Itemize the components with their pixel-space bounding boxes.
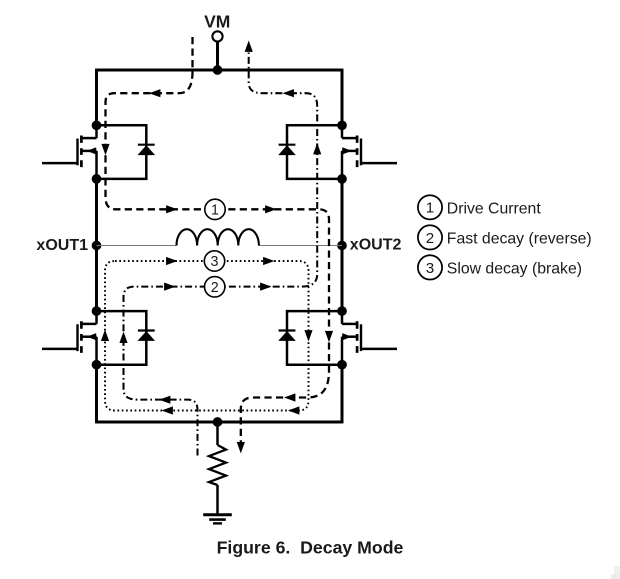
wire left rail upper (95, 69, 98, 126)
svg-text:Fast decay (reverse): Fast decay (reverse) (447, 231, 592, 248)
wire left rail middle (95, 179, 98, 311)
arrow path2 bottom (159, 396, 170, 404)
path label circle 2 (205, 277, 225, 297)
node xOUT2 (337, 241, 347, 251)
junction Q2 source (337, 174, 347, 184)
inductor motor winding (177, 229, 259, 245)
arrow path1 bottom (284, 393, 295, 401)
current path 3 slow decay (dotted) (105, 261, 309, 411)
wire winding to xOUT2 (259, 245, 342, 247)
legend item 2 (418, 225, 592, 249)
junction sense node (213, 417, 223, 427)
junction Q3 source (92, 360, 102, 370)
junction Q2 drain (337, 120, 347, 130)
svg-text:1: 1 (211, 202, 219, 218)
node xOUT1 (92, 241, 102, 251)
wire top rail (97, 69, 343, 72)
body diode of Q3 (low-side left) (97, 311, 156, 365)
svg-text:xOUT1: xOUT1 (36, 237, 88, 254)
arrow path3 top right (263, 257, 274, 265)
net label VM (204, 12, 230, 32)
arrow path2 up through Q3 diode (119, 332, 127, 343)
current path 2 fast decay (dash-dot) (124, 53, 318, 456)
arrow path1 to sense resistor (237, 442, 245, 453)
arrow path3 down through Q4 diode (304, 330, 312, 341)
arrow path1 down through Q4 (325, 331, 333, 342)
arrow path2 mid left (164, 283, 175, 291)
path label circle 3 (204, 251, 224, 271)
arrow path1 down through Q1 (101, 144, 109, 155)
transistor Q2 (high-side right) (342, 125, 397, 179)
transistor Q1 (high-side left) (42, 125, 97, 179)
wire left rail lower (95, 365, 98, 424)
legend item 3 (418, 255, 582, 279)
arrow path1 top-left (149, 89, 160, 97)
svg-text:xOUT2: xOUT2 (350, 237, 402, 254)
wire xOUT1 to winding (97, 245, 177, 247)
wire right rail middle (341, 179, 344, 311)
junction VM node (213, 65, 223, 75)
wire to sense resistor (216, 422, 219, 445)
junction Q4 source (337, 360, 347, 370)
arrow path2 mid right (260, 283, 271, 291)
body diode of Q4 (low-side right) (278, 311, 342, 365)
junction Q4 drain (337, 306, 347, 316)
transistor Q4 (low-side right) (342, 311, 397, 365)
arrow path2 to VM (245, 41, 253, 52)
arrow path1 mid left (166, 205, 177, 213)
wire resistor to ground (216, 485, 219, 514)
svg-text:VM: VM (204, 12, 230, 32)
svg-text:Drive Current: Drive Current (447, 201, 542, 218)
body diode of Q1 (high-side left) (97, 125, 156, 179)
arrow path3 top left (166, 257, 177, 265)
junction Q1 source (92, 174, 102, 184)
svg-text:Figure 6. Decay Mode: Figure 6. Decay Mode (217, 538, 404, 558)
svg-text:3: 3 (211, 254, 219, 270)
arrow path3 up through Q3 diode (101, 330, 109, 341)
wire VM stem (216, 41, 219, 70)
body diode of Q2 (high-side right) (278, 125, 342, 179)
svg-text:1: 1 (426, 200, 434, 217)
arrow path1 mid right (265, 205, 276, 213)
arrow path3 bottom left (162, 406, 173, 414)
svg-text:2: 2 (211, 280, 219, 296)
legend item 1 (418, 195, 541, 219)
svg-text:Slow decay (brake): Slow decay (brake) (447, 261, 582, 278)
transistor Q3 (low-side left) (42, 311, 97, 365)
arrow path2 top (283, 89, 294, 97)
page edge artifact (611, 566, 620, 579)
wire bottom rail (97, 421, 343, 424)
ground (203, 515, 232, 524)
net label xOUT1 (36, 237, 88, 254)
arrow path3 bottom right (288, 406, 299, 414)
path label circle 1 (205, 199, 225, 219)
junction Q1 drain (92, 120, 102, 130)
net label xOUT2 (350, 237, 402, 254)
resistor RSENSE (209, 445, 226, 485)
current path 1 drive current (dashed) (106, 37, 330, 447)
arrow path2 up through Q2 diode (313, 143, 321, 154)
junction Q3 drain (92, 306, 102, 316)
svg-text:3: 3 (426, 260, 434, 277)
wire right rail upper (341, 69, 344, 126)
svg-text:2: 2 (426, 230, 434, 247)
wire right rail lower (341, 365, 344, 424)
caption Figure 6 Decay Mode (217, 538, 404, 558)
terminal VM (212, 31, 222, 41)
